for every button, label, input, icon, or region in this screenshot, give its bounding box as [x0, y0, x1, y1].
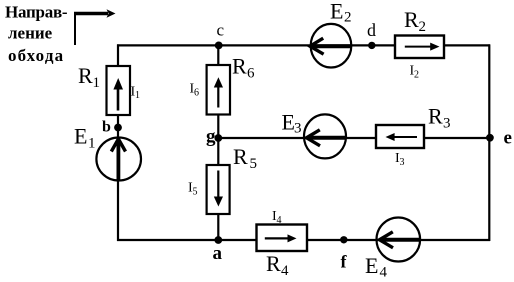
svg-text:3: 3 — [294, 121, 302, 137]
svg-text:R: R — [78, 63, 93, 88]
svg-text:Направ-: Направ- — [5, 3, 68, 22]
svg-text:3: 3 — [443, 116, 451, 132]
svg-text:ление: ление — [8, 24, 53, 43]
svg-text:d: d — [367, 20, 376, 40]
wire middle vertical: c-g-a — [217, 44, 219, 241]
wire right vertical: through e — [488, 44, 490, 241]
svg-text:g: g — [206, 126, 216, 147]
resistor R1 — [107, 66, 131, 115]
current arrow I4 inside R4 — [265, 237, 289, 239]
svg-text:6: 6 — [247, 66, 255, 82]
svg-text:c: c — [217, 21, 225, 40]
current arrow I3 inside R3 — [391, 136, 417, 138]
svg-text:E: E — [282, 110, 295, 135]
node f — [340, 236, 347, 243]
node e — [486, 134, 494, 142]
svg-text:R: R — [232, 54, 247, 79]
svg-text:E: E — [74, 124, 87, 149]
EMF source E4 circle — [377, 218, 421, 262]
svg-text:5: 5 — [250, 156, 258, 172]
svg-text:b: b — [102, 119, 111, 136]
resistor R4 — [257, 225, 308, 252]
node g — [214, 134, 222, 142]
resistor R6 — [207, 65, 230, 115]
svg-text:1: 1 — [93, 75, 101, 91]
svg-text:2: 2 — [414, 70, 419, 81]
resistor R2 — [395, 36, 444, 59]
EMF E4 arrow (left) — [380, 238, 420, 242]
node b — [114, 124, 122, 132]
svg-text:4: 4 — [380, 265, 388, 281]
wire top: c-d-corner — [117, 44, 490, 46]
direction-of-traversal arrow — [74, 9, 116, 45]
current arrow I1 inside R1 — [117, 86, 120, 111]
svg-text:1: 1 — [88, 136, 96, 152]
wire left: b-E1 branch — [117, 44, 119, 241]
svg-text:1: 1 — [135, 90, 140, 101]
svg-text:R: R — [266, 251, 281, 276]
wire bottom: a-f — [117, 239, 490, 241]
resistor R5 — [207, 165, 230, 214]
current arrow I6 inside R6 — [217, 86, 219, 108]
svg-text:E: E — [365, 253, 378, 278]
current arrow I2 inside R2 — [405, 46, 432, 48]
svg-text:5: 5 — [193, 187, 198, 198]
node d — [368, 42, 375, 49]
node a — [214, 236, 222, 244]
EMF E1 arrow (up) — [117, 140, 121, 182]
EMF source E3 circle — [304, 114, 346, 158]
svg-text:e: e — [504, 127, 512, 148]
svg-text:R: R — [428, 104, 443, 129]
current arrow I5 inside R5 — [217, 171, 219, 198]
svg-text:6: 6 — [194, 88, 199, 99]
svg-text:2: 2 — [419, 19, 427, 35]
svg-text:R: R — [404, 7, 419, 32]
wire middle horizontal: g-e — [218, 137, 489, 139]
node c — [215, 42, 223, 50]
EMF source E1 circle — [96, 138, 141, 181]
svg-text:f: f — [341, 252, 348, 272]
EMF E3 arrow (left) — [307, 136, 347, 140]
resistor R3 — [376, 125, 424, 148]
EMF E2 arrow (left) — [311, 44, 352, 48]
svg-text:4: 4 — [277, 215, 282, 226]
svg-text:a: a — [213, 243, 223, 264]
svg-text:2: 2 — [344, 10, 352, 26]
svg-text:4: 4 — [281, 263, 289, 279]
svg-text:3: 3 — [400, 157, 405, 168]
svg-text:R: R — [233, 144, 248, 169]
EMF source E2 circle — [311, 24, 352, 68]
svg-text:E: E — [330, 0, 343, 24]
svg-text:обхода: обхода — [8, 46, 64, 65]
